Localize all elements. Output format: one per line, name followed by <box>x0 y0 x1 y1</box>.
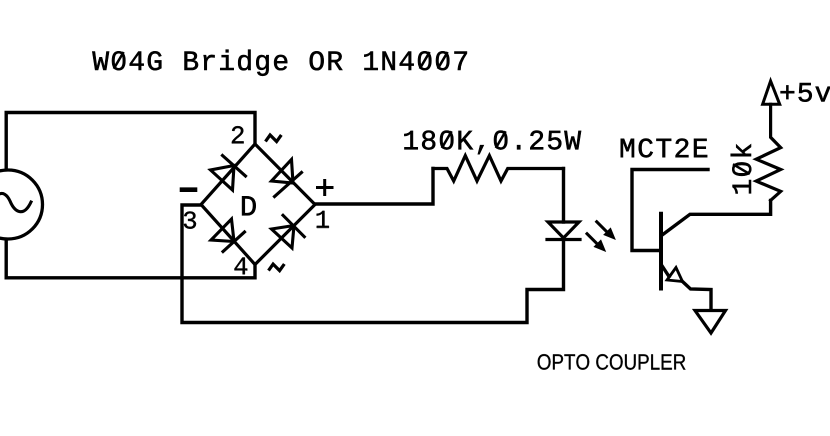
LED optocoupler emitter diode <box>547 222 580 240</box>
bridge D diode 3-4 (anode pin3, cathode pin4) <box>211 219 245 252</box>
wire LED cathode to bridge pin 3 <box>182 205 564 323</box>
OPTO COUPLER label <box>538 354 686 370</box>
bridge D diode 4-1 (anode pin4, cathode pin1) <box>272 215 305 248</box>
emitter arrowhead <box>667 268 683 282</box>
bridge rectifier D diamond outline <box>201 144 315 265</box>
value label 10k <box>731 144 752 193</box>
phototransistor collector wire to R2 <box>662 200 771 235</box>
pin 4 label <box>234 258 247 275</box>
pin 3 label <box>184 211 196 228</box>
AC source <box>0 170 43 239</box>
minus sign at pin 3 <box>182 187 195 192</box>
bridge D diode 3-2 (anode pin3, cathode pin2) <box>211 156 246 191</box>
pin 1 label <box>317 211 329 228</box>
pin 4 AC tilde <box>269 264 283 271</box>
phototransistor emitter wire to ground <box>662 265 712 310</box>
plus sign at pin 1 <box>318 181 333 195</box>
+5v power symbol triangle <box>763 81 780 104</box>
optocoupler base wire <box>632 170 708 251</box>
pin 2 AC tilde <box>266 135 280 142</box>
value label 180K,0.25W <box>404 131 581 155</box>
title label W04G Bridge OR 1N4007 <box>92 50 467 76</box>
ground symbol <box>695 311 726 334</box>
pin 2 label <box>232 126 244 143</box>
bridge D diode 2-1 (anode pin2, cathode pin1) <box>272 160 302 197</box>
wire AC bottom to bridge pin 4 <box>6 240 255 278</box>
bridge label D <box>242 196 256 215</box>
+5v label <box>781 83 830 102</box>
wire AC top to bridge pin 2 <box>6 113 255 170</box>
LED light emission arrows <box>587 222 615 251</box>
phototransistor base bar <box>659 214 663 289</box>
resistor R2 10k zigzag <box>756 104 781 200</box>
optocoupler label MCT2E <box>621 138 707 157</box>
wire bridge pin 1 to resistor R1 <box>315 169 433 205</box>
wire resistor to LED anode <box>562 169 565 223</box>
resistor R1 180K zigzag <box>433 156 564 181</box>
